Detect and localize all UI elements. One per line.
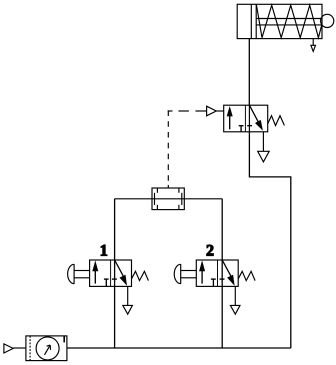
pilot valve blocked port T marks bbox=[239, 126, 252, 132]
pilot valve right box exhaust arrow bbox=[249, 105, 263, 131]
valve 2 left box flow arrow bbox=[199, 260, 205, 283]
valve 2 return spring bbox=[238, 271, 255, 280]
svg-text:2: 2 bbox=[206, 243, 214, 260]
cylinder: single-acting, spring return bbox=[237, 4, 334, 38]
wire: valve 2 branch vertical bbox=[221, 199, 223, 348]
compressed air supply source triangle bbox=[4, 344, 26, 353]
valve 1: push-button 3/2 valve body bbox=[90, 260, 132, 286]
valve 1 right box exhaust arrow bbox=[115, 260, 127, 286]
valve 2 push button bbox=[174, 264, 196, 284]
pilot-operated 3/2 valve body bbox=[224, 105, 268, 132]
dashed pilot control line from shuttle valve bbox=[167, 110, 169, 184]
pilot valve left box flow arrow bbox=[227, 106, 233, 129]
pilot valve return spring bbox=[268, 116, 285, 126]
wire: shuttle valve to valve 1 and valve 2 branches bbox=[115, 198, 223, 200]
valve 2 right box exhaust arrow bbox=[222, 260, 234, 286]
valve 2 exhaust bbox=[230, 286, 240, 314]
cylinder vent exhaust bbox=[311, 39, 316, 52]
pilot valve exhaust bbox=[258, 132, 270, 162]
valve 1 push button bbox=[68, 264, 90, 284]
valve 1 blocked port T marks bbox=[104, 279, 117, 286]
wire: supply line along bottom bbox=[67, 347, 291, 349]
wire: valve 1 branch vertical bbox=[114, 199, 116, 348]
pilot valve pilot actuator triangle bbox=[207, 106, 224, 116]
wire: cylinder to pilot valve port A bbox=[248, 39, 250, 106]
valve 1 exhaust bbox=[123, 286, 133, 314]
air service / flow control unit bbox=[26, 336, 67, 361]
valve 2 blocked port T marks bbox=[211, 279, 225, 286]
valve 2: push-button 3/2 valve body bbox=[196, 260, 238, 286]
shuttle valve outlet stub bbox=[167, 185, 169, 188]
svg-text:1: 1 bbox=[100, 242, 108, 259]
shuttle valve (OR) body bbox=[152, 188, 184, 210]
wire: pilot valve P port down, right, down to supply bbox=[249, 132, 290, 348]
valve 1 return spring bbox=[132, 271, 149, 280]
valve 1 left box flow arrow bbox=[92, 260, 98, 283]
